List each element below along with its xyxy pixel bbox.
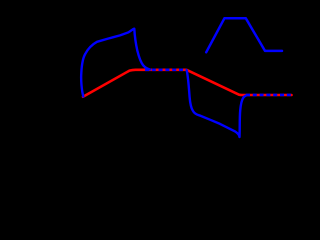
wire: blue dashed overlay on flat1 — [145, 69, 187, 72]
red equilibrium line: ramp1 -> flat1 -> ramp2 -> flat2 — [83, 70, 292, 97]
node C: blue trapezoid waveform inset (top right) — [206, 18, 282, 52]
node A: blue loop 1 (upper-left hysteresis loop) — [81, 29, 150, 97]
node B: blue loop 2 (lower-right hysteresis loop) — [187, 70, 247, 137]
wire: blue dashed overlay on flat2 — [246, 94, 292, 97]
